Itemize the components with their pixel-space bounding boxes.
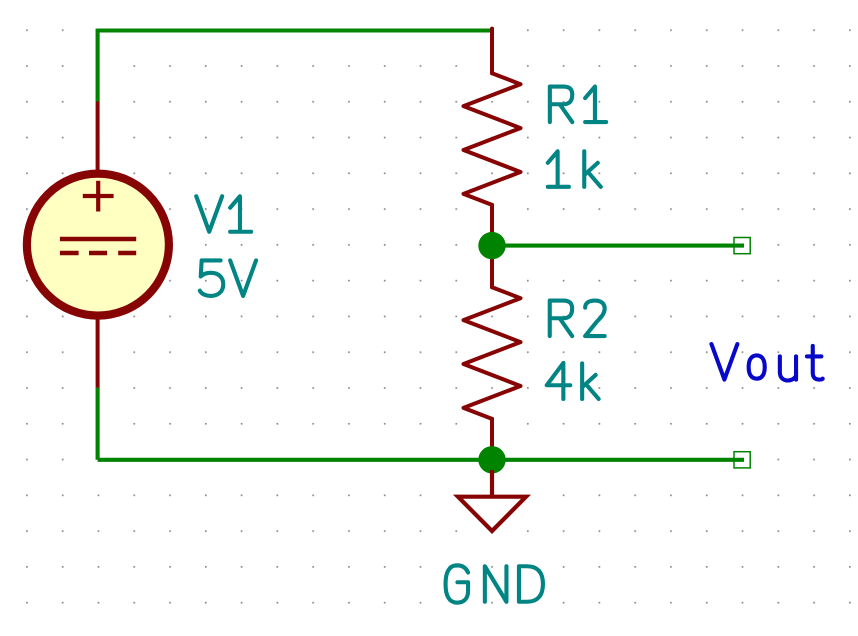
V1 battery dashed line: [60, 251, 136, 256]
V1 battery solid line: [60, 237, 136, 242]
V1 circle body: [27, 174, 169, 316]
voltage source V1: [27, 102, 169, 388]
R1 pin top: [490, 29, 494, 74]
label R2 (reference of R2): [550, 301, 605, 337]
wire: bottom horizontal (V1- to Vout lower end): [98, 458, 744, 462]
label Vout (net name): [711, 344, 822, 380]
V1 pin 1 (top): [96, 102, 100, 176]
R2 pin bottom: [490, 419, 494, 460]
label 4k (value of R2): [547, 363, 599, 399]
dangling end square (bottom wire): [734, 452, 750, 468]
R2 pin top: [490, 246, 494, 288]
label R1 (reference of R1): [550, 87, 606, 123]
dangling end square (mid wire): [734, 238, 750, 254]
wire: mid horizontal (divider tap to Vout upper end): [492, 244, 744, 248]
R2 zigzag body: [464, 287, 521, 419]
R1 pin bottom: [490, 205, 494, 246]
junction node B (ground rail): [478, 446, 505, 473]
wire: top horizontal from V1 to R1: [98, 28, 492, 32]
GND triangle: [458, 497, 526, 531]
V1 pin 2 (bottom): [96, 314, 100, 388]
label V1 (reference of V1): [196, 196, 251, 232]
R1 zigzag body: [464, 73, 521, 205]
wire: left vertical top (V1+ to top wire): [96, 29, 100, 102]
GND pin: [490, 470, 494, 497]
label 5V (value of V1): [200, 260, 256, 296]
resistor R2: [464, 246, 521, 460]
junction node A (divider tap): [478, 232, 505, 259]
label GND (net name): [446, 565, 543, 602]
text labels drawn as stroke-font glyphs: [196, 87, 606, 603]
V1 plus sign: [83, 181, 114, 212]
resistor R1: [464, 29, 521, 246]
ground symbol: [458, 470, 526, 531]
wire: left vertical bottom (V1- to bottom wire): [96, 388, 100, 460]
label 1k (value of R1): [548, 151, 601, 187]
